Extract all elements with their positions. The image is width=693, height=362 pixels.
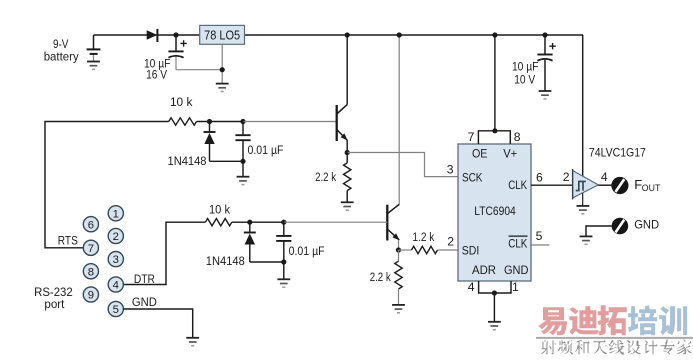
buffer U2 74LVC1G17 xyxy=(573,171,599,198)
node: Q1 collector at rail xyxy=(345,32,350,37)
op-amp/IC U1 LTC6904 body xyxy=(458,144,531,281)
battery B1 9V xyxy=(93,35,95,49)
connector pin 5 xyxy=(108,301,123,316)
ground under LTC6904 xyxy=(488,321,501,323)
node: pins 7-8 junction xyxy=(492,128,497,133)
terminal GND xyxy=(612,218,629,235)
svg-text:7: 7 xyxy=(88,243,94,255)
ground under R5 xyxy=(392,304,405,306)
wire Q2 collector to rail xyxy=(398,35,400,205)
connector pin 9 xyxy=(83,287,98,302)
connector pin 8 xyxy=(83,264,98,279)
svg-text:2.2 k: 2.2 k xyxy=(315,170,337,184)
svg-text:1N4148: 1N4148 xyxy=(206,254,245,268)
svg-text:SDI: SDI xyxy=(462,244,480,258)
wire top V+ rail right segment xyxy=(245,34,584,36)
connector pin 6 xyxy=(83,217,98,232)
wire R2 to D3/C3 nodes xyxy=(232,221,284,223)
capacitor C4 10uF 10V xyxy=(544,35,546,54)
ground under buffer xyxy=(582,193,584,206)
node: D2 anode row xyxy=(207,119,212,124)
diode D1 xyxy=(147,30,158,39)
svg-text:4: 4 xyxy=(468,280,475,294)
svg-text:CLK: CLK xyxy=(508,237,527,251)
svg-text:4: 4 xyxy=(601,170,608,184)
wire buffer supply from rail corner xyxy=(582,35,584,177)
node: D1 cathode / C1 / regulator input xyxy=(173,32,178,37)
resistor R4 1.2 k xyxy=(399,249,412,251)
node: C2 top xyxy=(240,119,245,124)
svg-text:1N4148: 1N4148 xyxy=(168,154,207,168)
resistor R1 10 k xyxy=(169,118,197,125)
wire pins 4/1 bridge to ground xyxy=(479,281,511,293)
wire Q1 emitter to node xyxy=(346,140,348,152)
ground under C2 xyxy=(237,176,250,178)
watermark banner xyxy=(538,307,567,335)
svg-text:1: 1 xyxy=(512,280,519,294)
ground under C3 xyxy=(277,278,290,280)
svg-text:6: 6 xyxy=(536,171,543,185)
svg-text:GND: GND xyxy=(504,263,529,277)
wire Q1 collector to rail xyxy=(346,35,348,105)
svg-text:10 V: 10 V xyxy=(514,72,536,86)
resistor R2 10 k xyxy=(205,219,231,226)
svg-text:74LVC1G17: 74LVC1G17 xyxy=(589,146,646,160)
resistor R5 2.2 k xyxy=(398,250,400,261)
connector pin 2 xyxy=(108,228,123,243)
svg-text:0.01 µF: 0.01 µF xyxy=(248,143,284,157)
wire GND from pin 5 xyxy=(123,309,193,338)
wire regulator ground lead xyxy=(221,44,223,83)
schmitt-trigger symbol xyxy=(576,181,586,190)
diode D2 1N4148 xyxy=(209,122,211,132)
svg-text:10 µF: 10 µF xyxy=(512,59,539,73)
ground under C4 xyxy=(539,90,552,92)
transistor Q1 xyxy=(336,105,338,141)
ground under regulator xyxy=(216,83,229,85)
svg-text:6: 6 xyxy=(88,219,94,231)
svg-text:10 k: 10 k xyxy=(170,95,193,109)
pin number 5 / CLK-bar stub xyxy=(531,244,550,246)
svg-text:3: 3 xyxy=(113,254,119,266)
capacitor C1 10uF 16V xyxy=(175,35,177,51)
svg-text:5: 5 xyxy=(536,229,543,243)
wire C1 negative to regulator ground xyxy=(176,69,222,71)
svg-text:7: 7 xyxy=(468,130,475,144)
wire to Q1 base xyxy=(243,121,337,123)
node: Q2 collector at rail xyxy=(397,32,402,37)
ground under R3 xyxy=(341,201,354,203)
svg-text:5: 5 xyxy=(113,304,119,316)
svg-text:OUT: OUT xyxy=(642,183,661,193)
svg-text:1.2 k: 1.2 k xyxy=(412,230,435,244)
node: Q1 emitter junction xyxy=(345,150,350,155)
ground at pin-5 wire xyxy=(186,337,199,339)
svg-text:16 V: 16 V xyxy=(146,67,168,81)
svg-text:ADR: ADR xyxy=(472,263,496,277)
svg-text:LTC6904: LTC6904 xyxy=(474,204,516,218)
transistor Q2 xyxy=(386,205,388,241)
wire GND terminal to ground xyxy=(586,226,612,236)
regulator U3 78 LO5 xyxy=(200,25,245,44)
node: C2 bottom junction xyxy=(240,159,245,164)
connector pin 3 xyxy=(108,252,123,267)
svg-text:2: 2 xyxy=(113,231,119,243)
svg-text:0.01 µF: 0.01 µF xyxy=(289,244,325,258)
wire Q1 emitter to SCK pin 3 xyxy=(347,153,458,177)
wire pins 7/8 bridge to V+ rail xyxy=(478,131,510,144)
connector pin 7 xyxy=(83,240,98,255)
node: pins 4-1 junction xyxy=(492,290,497,295)
svg-text:4: 4 xyxy=(113,280,119,292)
wire RTS from pin 7 up to R1 xyxy=(45,122,169,248)
svg-text:SCK: SCK xyxy=(462,170,483,184)
svg-text:2: 2 xyxy=(563,170,570,184)
node: Q2 emitter junction xyxy=(396,247,401,252)
resistor R3 2.2 k xyxy=(346,153,348,163)
wire Q2 emitter to node xyxy=(398,240,400,250)
node: V+ rail tap xyxy=(492,32,497,37)
svg-text:78 LO5: 78 LO5 xyxy=(204,28,240,43)
wire to Q2 base xyxy=(284,221,388,223)
pin number 6 / CLK wire to buffer xyxy=(531,184,573,186)
connector pin 4 xyxy=(108,277,123,292)
node: D3 row xyxy=(247,220,252,225)
capacitor C2 0.01uF xyxy=(242,122,244,136)
ground at GND terminal xyxy=(580,235,593,237)
svg-text:V+: V+ xyxy=(503,147,517,161)
node: C4 top xyxy=(542,32,547,37)
wire D2 anode to C2 bottom xyxy=(210,160,244,162)
connector J1 RS-232 pin 1 xyxy=(108,206,123,221)
svg-text:RTS: RTS xyxy=(58,234,78,248)
node: C3 top xyxy=(281,220,286,225)
node: C3 bottom junction xyxy=(281,259,286,264)
svg-text:battery: battery xyxy=(44,49,80,63)
diode D3 1N4148 xyxy=(249,222,251,232)
svg-text:9: 9 xyxy=(88,290,94,302)
svg-text:CLK: CLK xyxy=(508,178,527,192)
svg-text:8: 8 xyxy=(88,266,94,278)
terminal FOUT xyxy=(611,177,628,194)
wire D3 anode to C3 bottom xyxy=(250,261,284,263)
wire R1 to D2/C2 nodes xyxy=(197,121,244,123)
svg-text:3: 3 xyxy=(447,163,454,177)
ground under battery xyxy=(87,61,100,63)
svg-text:DTR: DTR xyxy=(134,272,155,286)
wire buffer output xyxy=(598,184,611,186)
svg-text:2: 2 xyxy=(447,234,454,248)
wire DTR from pin 4 up to R2 xyxy=(123,222,205,284)
capacitor C3 0.01uF xyxy=(283,222,285,236)
svg-text:GND: GND xyxy=(634,217,659,231)
svg-text:2.2 k: 2.2 k xyxy=(370,270,392,284)
svg-text:8: 8 xyxy=(514,130,521,144)
svg-text:1: 1 xyxy=(113,208,119,220)
svg-text:10 k: 10 k xyxy=(209,203,231,217)
svg-text:OE: OE xyxy=(472,147,488,161)
wire top V+ rail left segment xyxy=(94,34,200,36)
svg-text:port: port xyxy=(44,297,65,311)
svg-text:GND: GND xyxy=(132,295,157,309)
node: regulator ground junction xyxy=(220,67,225,72)
